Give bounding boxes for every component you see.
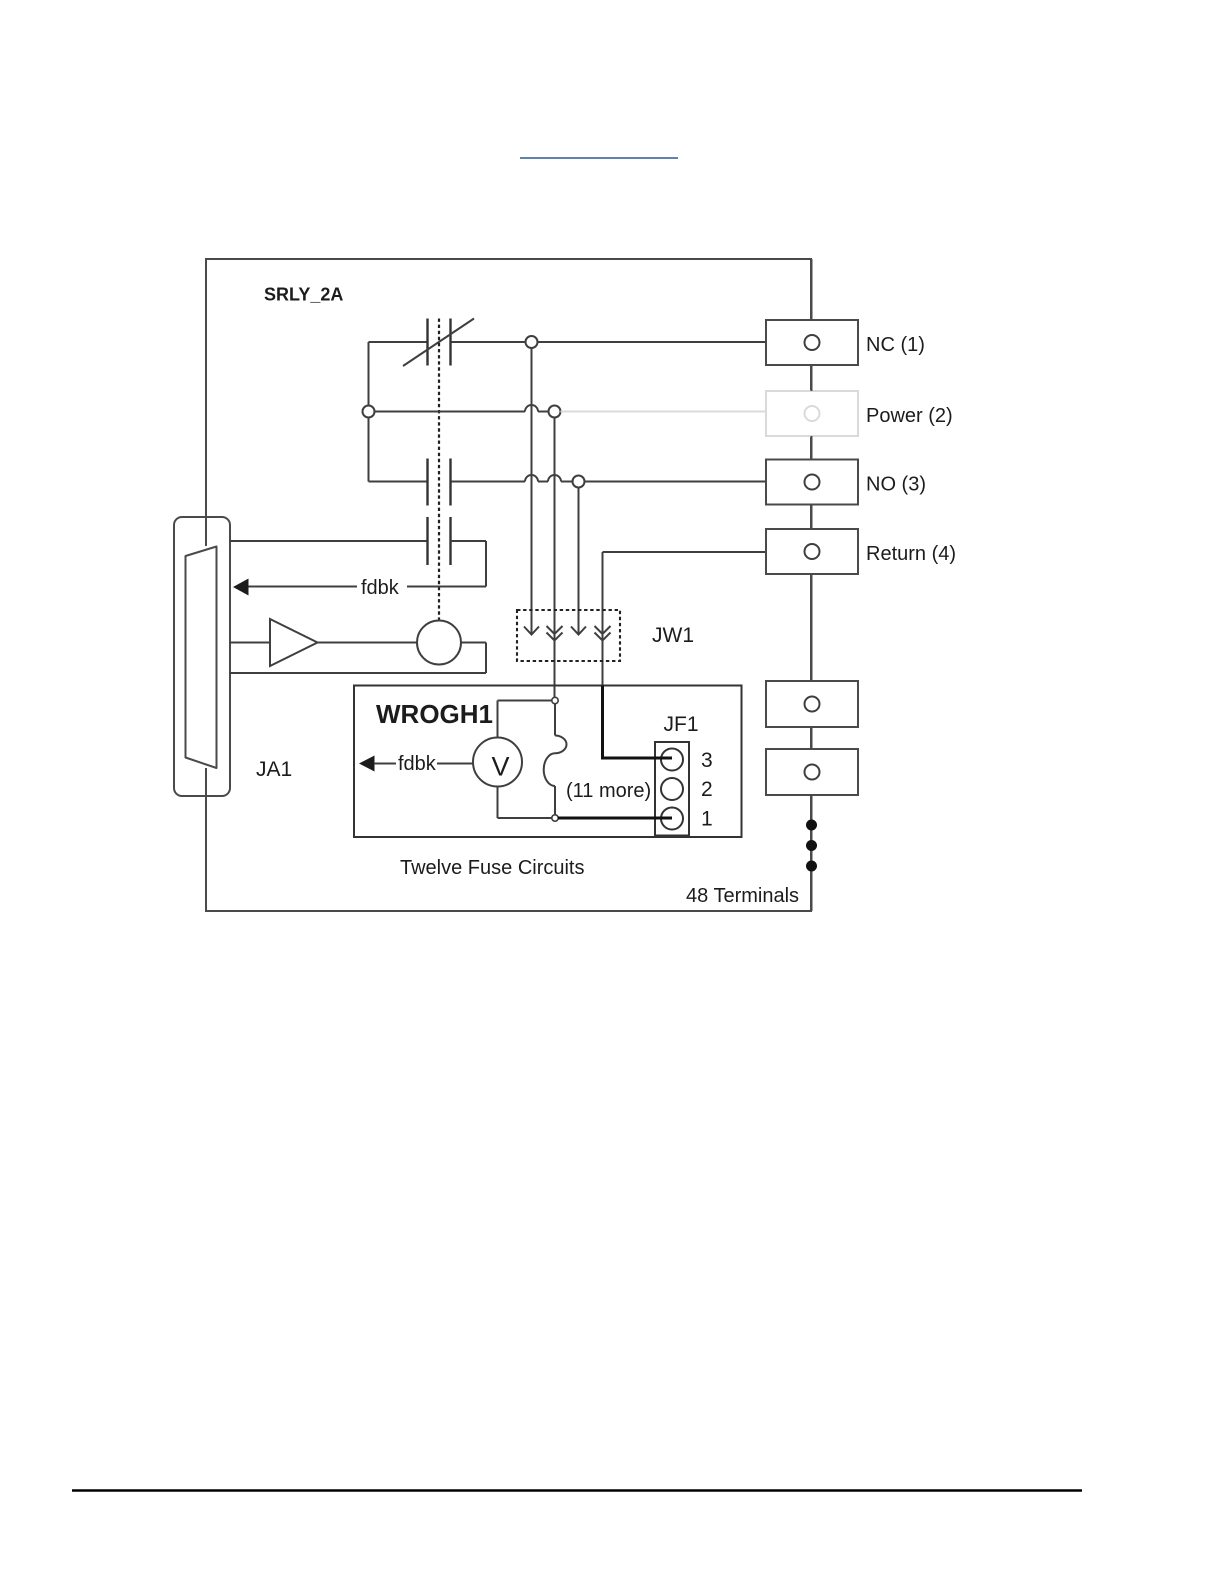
fuse F1 bbox=[544, 704, 567, 816]
svg-text:JA1: JA1 bbox=[256, 758, 292, 781]
terminal NO (3) bbox=[766, 460, 858, 505]
actuator dashed link bbox=[438, 319, 440, 621]
svg-text:fdbk: fdbk bbox=[361, 577, 400, 599]
label SRLY_2A bbox=[264, 285, 343, 305]
terminal Return (4) bbox=[766, 529, 858, 574]
label pin 1 bbox=[701, 808, 713, 831]
wire thick to JF1 pin1 bbox=[558, 817, 672, 820]
wire coil return bbox=[230, 643, 487, 674]
svg-text:Power (2): Power (2) bbox=[866, 405, 953, 427]
node fuse top bbox=[552, 697, 558, 703]
relay coil bbox=[417, 621, 461, 665]
label 11 more bbox=[566, 780, 651, 802]
hyperlink underline bbox=[520, 157, 678, 159]
wire NO bbox=[369, 475, 767, 481]
wire drop from NC node bbox=[531, 348, 533, 634]
svg-text:2: 2 bbox=[701, 778, 713, 801]
node NO junction bbox=[573, 476, 585, 488]
label fdbk upper bbox=[361, 577, 400, 599]
wire drop from NO node bbox=[578, 488, 580, 634]
wire NC top bbox=[369, 341, 767, 343]
arrow fdbk lower bbox=[359, 756, 375, 772]
svg-text:NC (1): NC (1) bbox=[866, 334, 925, 356]
bus spine segments bbox=[811, 259, 813, 911]
label NC (1) bbox=[866, 334, 925, 356]
svg-text:JF1: JF1 bbox=[664, 713, 699, 736]
terminal NC (1) bbox=[766, 320, 858, 365]
node fuse bottom bbox=[552, 815, 558, 821]
relay contact NC bbox=[403, 319, 474, 367]
label Return (4) bbox=[866, 543, 956, 565]
node NC junction bbox=[526, 336, 538, 348]
terminal 6 bbox=[766, 749, 858, 795]
label JF1 bbox=[664, 713, 699, 736]
terminal Power (2) bbox=[766, 391, 858, 436]
svg-text:Twelve Fuse Circuits: Twelve Fuse Circuits bbox=[400, 857, 585, 879]
wire Power faded bbox=[561, 411, 767, 413]
svg-text:(11 more): (11 more) bbox=[566, 780, 651, 802]
enclosure box SRLY_2A bbox=[206, 259, 811, 911]
connector JA1 bbox=[174, 517, 230, 796]
node Power junction bbox=[549, 406, 561, 418]
arrowhead double 4 bbox=[595, 626, 611, 641]
wire Power bbox=[375, 405, 549, 412]
svg-text:V: V bbox=[492, 752, 510, 782]
label 48 Terminals bbox=[686, 885, 799, 907]
svg-text:JW1: JW1 bbox=[652, 624, 694, 647]
svg-text:NO (3): NO (3) bbox=[866, 474, 926, 496]
arrowhead single 3 bbox=[571, 627, 586, 635]
wire JA1 to contact K2 bbox=[230, 540, 428, 542]
arrowhead single 1 bbox=[524, 627, 539, 635]
wire amplifier to coil bbox=[318, 642, 418, 644]
wire JA1 to amplifier bbox=[230, 642, 271, 644]
label fdbk lower bbox=[398, 753, 437, 775]
wire contact K2 return bbox=[248, 541, 486, 587]
svg-text:SRLY_2A: SRLY_2A bbox=[264, 285, 343, 305]
label pin 3 bbox=[701, 749, 713, 772]
relay contact K2 bbox=[428, 517, 451, 565]
node Power left bbox=[363, 406, 375, 418]
svg-text:fdbk: fdbk bbox=[398, 753, 437, 775]
arrow fdbk upper bbox=[233, 579, 249, 596]
module box WROGH1 bbox=[354, 686, 742, 838]
arrowhead double 2 bbox=[547, 626, 563, 641]
label Twelve Fuse Circuits bbox=[400, 857, 585, 879]
wire Return bbox=[603, 552, 767, 686]
wire fdbk lower bbox=[374, 763, 473, 765]
svg-text:1: 1 bbox=[701, 808, 713, 831]
wire left riser bbox=[368, 342, 370, 482]
connector JF1 bbox=[655, 742, 689, 836]
svg-text:Return (4): Return (4) bbox=[866, 543, 956, 565]
svg-text:3: 3 bbox=[701, 749, 713, 772]
label NO (3) bbox=[866, 474, 926, 496]
wire drop from Power node bbox=[554, 418, 556, 701]
enclosure left edge through JA1 bbox=[205, 517, 207, 796]
voltmeter V bbox=[473, 738, 522, 787]
amplifier buffer bbox=[270, 619, 318, 666]
label JA1 bbox=[256, 758, 292, 781]
relay contact NO bbox=[428, 459, 451, 506]
label WROGH1 bbox=[376, 699, 493, 729]
ellipsis dots bbox=[806, 820, 817, 872]
svg-text:48 Terminals: 48 Terminals bbox=[686, 885, 799, 907]
label pin 2 bbox=[701, 778, 713, 801]
svg-text:WROGH1: WROGH1 bbox=[376, 699, 493, 729]
wire voltmeter bottom bbox=[498, 787, 553, 819]
label JW1 bbox=[652, 624, 694, 647]
terminal 5 bbox=[766, 681, 858, 727]
jumper block JW1 bbox=[517, 610, 620, 661]
label Power (2) bbox=[866, 405, 953, 427]
wire thick to JF1 pin3 bbox=[603, 686, 673, 759]
wire voltmeter top bbox=[498, 701, 553, 738]
footer rule bbox=[72, 1489, 1082, 1492]
